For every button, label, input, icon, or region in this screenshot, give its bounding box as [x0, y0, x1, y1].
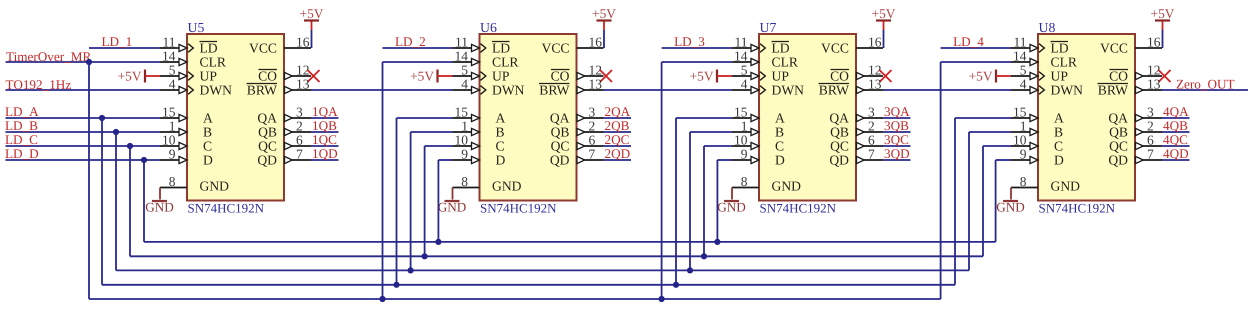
U7 pin 11 (LD) input [732, 34, 790, 55]
net label 3QB and wire [883, 118, 911, 133]
svg-text:QC: QC [551, 139, 570, 154]
net label LD_1 wire to U5 pin 11 [89, 34, 160, 49]
svg-text:QB: QB [258, 125, 277, 140]
svg-text:14: 14 [734, 48, 748, 63]
svg-text:1QD: 1QD [312, 146, 338, 161]
svg-text:C: C [1054, 139, 1063, 154]
power +5V bar symbol at U5 UP pin [118, 69, 160, 84]
svg-text:12: 12 [1147, 62, 1161, 77]
U5 pin 7 (QD) output [257, 146, 311, 167]
svg-text:+5V: +5V [410, 69, 434, 84]
wire TimerOver_MR vertical drop [88, 62, 90, 299]
svg-text:3: 3 [868, 104, 875, 119]
svg-text:4: 4 [461, 76, 468, 91]
svg-text:6: 6 [589, 132, 596, 147]
wire riser U7 B from bottom bus [687, 132, 732, 274]
svg-text:1QB: 1QB [312, 118, 337, 133]
svg-text:LD_4: LD_4 [953, 34, 984, 49]
svg-text:B: B [1054, 125, 1063, 140]
svg-text:CLR: CLR [772, 55, 799, 70]
U5 pin 2 (QB) output [258, 118, 311, 139]
U7 pin 3 (QA) output [829, 104, 883, 125]
U6 pin 14 (CLR) input [453, 48, 520, 69]
part number SN74HC192N of U5 [188, 201, 265, 216]
svg-text:SN74HC192N: SN74HC192N [760, 201, 837, 216]
svg-text:6: 6 [296, 132, 303, 147]
part number SN74HC192N of U8 [1039, 201, 1116, 216]
svg-text:6: 6 [868, 132, 875, 147]
svg-text:3QD: 3QD [884, 146, 910, 161]
IC U8 SN74HC192N body [1038, 34, 1135, 201]
svg-text:2: 2 [589, 118, 596, 133]
svg-text:A: A [496, 111, 506, 126]
svg-text:U7: U7 [760, 20, 777, 35]
U6 pin 16 (VCC) [542, 34, 604, 55]
svg-text:9: 9 [169, 146, 176, 161]
U8 pin 3 (QA) output [1108, 104, 1162, 125]
net label 2QB and wire [604, 118, 632, 133]
svg-text:5: 5 [1020, 62, 1027, 77]
svg-text:4: 4 [169, 76, 176, 91]
svg-text:D: D [203, 153, 213, 168]
U5 pin 11 (LD) input [160, 34, 218, 55]
net LD_D: label and wire to U5 pin D [5, 146, 160, 161]
svg-text:4: 4 [1020, 76, 1027, 91]
U5 pin 10 (C) input [160, 132, 212, 153]
svg-text:UP: UP [772, 69, 790, 84]
svg-text:GND: GND [145, 200, 174, 215]
U6 pin 7 (QD) output [550, 146, 604, 167]
svg-text:16: 16 [1147, 34, 1161, 49]
svg-text:TimerOver_MR: TimerOver_MR [6, 49, 91, 64]
U8 pin 16 (VCC) [1100, 34, 1162, 55]
svg-text:8: 8 [461, 174, 468, 189]
net label 3QD and wire [883, 146, 911, 161]
U8 pin 11 (LD) input [1011, 34, 1069, 55]
svg-text:QB: QB [551, 125, 570, 140]
svg-text:2: 2 [868, 118, 875, 133]
svg-text:C: C [496, 139, 505, 154]
U7 pin 10 (C) input [732, 132, 784, 153]
U6 pin 4 (DWN) input [453, 76, 525, 97]
wire LD_C bottom bus [130, 255, 983, 257]
junction LD_D tap [141, 157, 147, 163]
wire LD_A vertical drop [101, 118, 103, 285]
U6 pin 12 (CO) with no-connect X [551, 62, 612, 83]
svg-text:1QC: 1QC [312, 132, 337, 147]
svg-text:2QB: 2QB [605, 118, 630, 133]
U5 pin 6 (QC) output [258, 132, 311, 153]
U5 pin 4 (DWN) input [160, 76, 232, 97]
svg-text:CO: CO [830, 69, 849, 84]
U6 pin 3 (QA) output [550, 104, 604, 125]
net label 3QC and wire [883, 132, 911, 147]
svg-text:4QD: 4QD [1163, 146, 1189, 161]
svg-text:GND: GND [1051, 179, 1081, 194]
svg-text:U5: U5 [188, 20, 205, 35]
svg-text:B: B [775, 125, 784, 140]
svg-text:U6: U6 [480, 20, 497, 35]
svg-text:12: 12 [868, 62, 882, 77]
svg-text:7: 7 [296, 146, 303, 161]
wire LD_B bottom bus [116, 269, 969, 271]
svg-text:4QA: 4QA [1163, 104, 1189, 119]
svg-text:LD: LD [200, 41, 218, 56]
wire TimerOver_MR bottom bus [89, 298, 941, 300]
net label 1QD and wire [311, 146, 339, 161]
U7 pin 8 (GND) [732, 174, 801, 194]
U5 pin 1 (B) input [160, 118, 212, 139]
svg-text:1: 1 [169, 118, 176, 133]
ground symbol GND at U7 pin 8 [717, 188, 746, 215]
U8 pin 14 (CLR) input [1011, 48, 1078, 69]
svg-text:BRW: BRW [539, 83, 569, 98]
svg-text:QC: QC [1109, 139, 1128, 154]
svg-text:BRW: BRW [1098, 83, 1128, 98]
svg-text:13: 13 [868, 76, 882, 91]
svg-text:10: 10 [162, 132, 176, 147]
wire riser U6 C from bottom bus [422, 146, 453, 259]
svg-text:QA: QA [829, 111, 849, 126]
U7 pin 13 (BRW) output [819, 76, 884, 97]
svg-text:7: 7 [589, 146, 596, 161]
svg-text:C: C [203, 139, 212, 154]
ground symbol GND at U6 pin 8 [438, 188, 467, 215]
svg-text:GND: GND [492, 179, 522, 194]
U7 pin 14 (CLR) input [732, 48, 799, 69]
svg-text:SN74HC192N: SN74HC192N [188, 201, 265, 216]
wire riser U8 C from bottom bus [983, 146, 1011, 256]
svg-text:9: 9 [741, 146, 748, 161]
svg-text:3QC: 3QC [884, 132, 909, 147]
svg-text:14: 14 [455, 48, 469, 63]
U6 pin 6 (QC) output [551, 132, 604, 153]
U8 pin 4 (DWN) input [1011, 76, 1083, 97]
svg-text:QC: QC [258, 139, 277, 154]
svg-text:VCC: VCC [821, 41, 849, 56]
svg-text:11: 11 [735, 34, 748, 49]
svg-text:VCC: VCC [1100, 41, 1128, 56]
net LD_B: label and wire to U5 pin B [5, 118, 160, 133]
svg-text:LD_1: LD_1 [102, 34, 133, 49]
wire riser U8 D from bottom bus [996, 160, 1011, 242]
svg-text:10: 10 [455, 132, 469, 147]
svg-text:U8: U8 [1039, 20, 1056, 35]
designator U6 [480, 20, 497, 35]
svg-text:B: B [496, 125, 505, 140]
net label 2QC and wire [604, 132, 632, 147]
U7 pin 5 (UP) input [732, 62, 789, 83]
U7 pin 15 (A) input [732, 104, 785, 125]
power +5V bar symbol at U6 UP pin [410, 69, 452, 84]
U7 pin 2 (QB) output [830, 118, 883, 139]
svg-text:10: 10 [1013, 132, 1027, 147]
svg-text:12: 12 [589, 62, 603, 77]
svg-text:SN74HC192N: SN74HC192N [480, 201, 557, 216]
U6 pin 9 (D) input [453, 146, 506, 167]
net Zero_OUT from U8 BRW [1162, 77, 1248, 92]
U5 pin 3 (QA) output [257, 104, 311, 125]
svg-text:UP: UP [1051, 69, 1069, 84]
U8 pin 6 (QC) output [1109, 132, 1162, 153]
svg-text:DWN: DWN [200, 83, 233, 98]
net label 4QC and wire [1162, 132, 1190, 147]
svg-text:8: 8 [741, 174, 748, 189]
part number SN74HC192N of U6 [480, 201, 557, 216]
svg-text:DWN: DWN [1051, 83, 1084, 98]
net label 4QB and wire [1162, 118, 1190, 133]
U8 pin 12 (CO) with no-connect X [1109, 62, 1170, 83]
svg-text:9: 9 [1020, 146, 1027, 161]
U5 pin 12 (CO) with no-connect X [258, 62, 319, 83]
U6 pin 13 (BRW) output [539, 76, 604, 97]
svg-text:+5V: +5V [300, 6, 324, 21]
svg-text:13: 13 [296, 76, 310, 91]
svg-text:CLR: CLR [200, 55, 227, 70]
svg-text:13: 13 [1147, 76, 1161, 91]
power +5V bar symbol at U8 UP pin [969, 69, 1011, 84]
svg-text:D: D [775, 153, 785, 168]
svg-text:CO: CO [1109, 69, 1128, 84]
svg-text:11: 11 [163, 34, 176, 49]
wire U6 BRW to U7 DWN [604, 89, 733, 91]
svg-text:1QA: 1QA [312, 104, 338, 119]
svg-text:LD_2: LD_2 [395, 34, 426, 49]
net label 2QA and wire [604, 104, 632, 119]
svg-text:QA: QA [550, 111, 570, 126]
U6 pin 2 (QB) output [551, 118, 604, 139]
svg-text:2: 2 [296, 118, 303, 133]
svg-text:GND: GND [717, 200, 746, 215]
U7 pin 7 (QD) output [829, 146, 883, 167]
svg-text:CLR: CLR [492, 55, 519, 70]
U5 pin 9 (D) input [160, 146, 213, 167]
svg-text:15: 15 [162, 104, 176, 119]
U5 pin 13 (BRW) output [247, 76, 312, 97]
ground symbol GND at U8 pin 8 [996, 188, 1025, 215]
svg-text:LD_C: LD_C [5, 132, 38, 147]
svg-text:4QB: 4QB [1163, 118, 1188, 133]
net TimerOver_MR: label and wire to U5 CLR [6, 49, 161, 64]
wire LD_D vertical drop [143, 160, 145, 242]
svg-text:2QA: 2QA [605, 104, 631, 119]
svg-text:LD: LD [1051, 41, 1069, 56]
wire U5 BRW to U6 DWN [311, 89, 453, 91]
ground symbol GND at U5 pin 8 [145, 188, 174, 215]
U7 pin 16 (VCC) [821, 34, 883, 55]
U7 pin 4 (DWN) input [732, 76, 804, 97]
wire LD_B vertical drop [115, 132, 117, 270]
wire riser U8 CLR from bottom bus [941, 62, 1011, 299]
svg-text:12: 12 [296, 62, 310, 77]
wire U7 BRW to U8 DWN [883, 89, 1011, 91]
net LD_A: label and wire to U5 pin A [5, 104, 160, 119]
svg-text:UP: UP [200, 69, 218, 84]
U7 pin 12 (CO) with no-connect X [830, 62, 891, 83]
svg-text:A: A [203, 111, 213, 126]
wire riser U6 B from bottom bus [408, 132, 453, 274]
svg-text:QA: QA [257, 111, 277, 126]
svg-text:15: 15 [734, 104, 748, 119]
svg-text:1: 1 [461, 118, 468, 133]
svg-text:CLR: CLR [1051, 55, 1078, 70]
net label 4QD and wire [1162, 146, 1190, 161]
wire riser U6 D from bottom bus [435, 160, 452, 245]
net label LD_4 wire to U8 pin 11 [941, 34, 1011, 49]
svg-text:QA: QA [1108, 111, 1128, 126]
svg-text:5: 5 [741, 62, 748, 77]
designator U7 [760, 20, 777, 35]
svg-text:QD: QD [1108, 153, 1128, 168]
wire riser U6 CLR from bottom bus [379, 62, 452, 302]
svg-text:DWN: DWN [492, 83, 525, 98]
junction LD_A tap [99, 115, 105, 121]
net label 2QD and wire [604, 146, 632, 161]
svg-text:16: 16 [296, 34, 310, 49]
wire LD_C vertical drop [129, 146, 131, 256]
svg-text:1: 1 [1020, 118, 1027, 133]
svg-text:5: 5 [169, 62, 176, 77]
U7 pin 1 (B) input [732, 118, 784, 139]
net TO192_1Hz: label and wire to U5 DWN [6, 77, 161, 92]
U5 pin 15 (A) input [160, 104, 213, 125]
svg-text:VCC: VCC [249, 41, 277, 56]
svg-text:TO192_1Hz: TO192_1Hz [6, 77, 72, 92]
svg-text:LD_3: LD_3 [674, 34, 705, 49]
svg-text:CO: CO [551, 69, 570, 84]
svg-text:2QC: 2QC [605, 132, 630, 147]
svg-text:LD_B: LD_B [5, 118, 38, 133]
svg-text:3: 3 [589, 104, 596, 119]
IC U5 SN74HC192N body [187, 34, 284, 201]
svg-text:QD: QD [257, 153, 277, 168]
svg-text:8: 8 [1020, 174, 1027, 189]
svg-text:8: 8 [169, 174, 176, 189]
svg-text:LD_A: LD_A [5, 104, 39, 119]
U5 pin 5 (UP) input [160, 62, 217, 83]
U8 pin 5 (UP) input [1011, 62, 1068, 83]
junction LD_C tap [127, 143, 133, 149]
svg-text:15: 15 [1013, 104, 1027, 119]
svg-text:SN74HC192N: SN74HC192N [1039, 201, 1116, 216]
power +5V bar symbol above U5 VCC [300, 6, 324, 48]
U7 pin 9 (D) input [732, 146, 785, 167]
U5 pin 8 (GND) [160, 174, 229, 194]
net label 1QC and wire [311, 132, 339, 147]
svg-text:11: 11 [1014, 34, 1027, 49]
U6 pin 11 (LD) input [453, 34, 511, 55]
svg-text:16: 16 [589, 34, 603, 49]
svg-text:UP: UP [492, 69, 510, 84]
svg-text:2QD: 2QD [605, 146, 631, 161]
svg-text:14: 14 [1013, 48, 1027, 63]
junction TimerOver_MR tap [86, 59, 92, 65]
IC U6 SN74HC192N body [480, 34, 577, 201]
svg-text:A: A [775, 111, 785, 126]
svg-text:BRW: BRW [819, 83, 849, 98]
U8 pin 8 (GND) [1011, 174, 1080, 194]
svg-text:14: 14 [162, 48, 176, 63]
svg-text:QD: QD [550, 153, 570, 168]
U6 pin 1 (B) input [453, 118, 505, 139]
net label 4QA and wire [1162, 104, 1190, 119]
U8 pin 13 (BRW) output [1098, 76, 1163, 97]
svg-text:11: 11 [455, 34, 468, 49]
wire riser U7 CLR from bottom bus [659, 62, 733, 302]
svg-text:+5V: +5V [118, 69, 142, 84]
svg-text:13: 13 [589, 76, 603, 91]
wire riser U8 B from bottom bus [969, 132, 1011, 270]
U8 pin 9 (D) input [1011, 146, 1064, 167]
svg-text:+5V: +5V [592, 6, 616, 21]
designator U8 [1039, 20, 1056, 35]
svg-text:10: 10 [734, 132, 748, 147]
svg-text:7: 7 [1147, 146, 1154, 161]
svg-text:BRW: BRW [247, 83, 277, 98]
power +5V bar symbol at U7 UP pin [690, 69, 732, 84]
net label 1QA and wire [311, 104, 339, 119]
svg-text:6: 6 [1147, 132, 1154, 147]
U7 pin 6 (QC) output [830, 132, 883, 153]
svg-text:LD: LD [492, 41, 510, 56]
power +5V bar symbol above U8 VCC [1151, 6, 1175, 48]
svg-text:QB: QB [1109, 125, 1128, 140]
svg-text:D: D [496, 153, 506, 168]
wire riser U8 A from bottom bus [955, 118, 1011, 285]
U8 pin 2 (QB) output [1109, 118, 1162, 139]
svg-text:Zero_OUT: Zero_OUT [1176, 77, 1235, 92]
svg-text:QB: QB [830, 125, 849, 140]
svg-text:1: 1 [741, 118, 748, 133]
IC U7 SN74HC192N body [759, 34, 856, 201]
wire riser U6 A from bottom bus [393, 118, 452, 288]
net label LD_3 wire to U7 pin 11 [662, 34, 732, 49]
U8 pin 7 (QD) output [1108, 146, 1162, 167]
U8 pin 1 (B) input [1011, 118, 1063, 139]
svg-text:A: A [1054, 111, 1064, 126]
U8 pin 15 (A) input [1011, 104, 1064, 125]
U8 pin 10 (C) input [1011, 132, 1063, 153]
svg-text:QD: QD [829, 153, 849, 168]
svg-text:3QA: 3QA [884, 104, 910, 119]
svg-text:GND: GND [772, 179, 802, 194]
U5 pin 16 (VCC) [249, 34, 311, 55]
svg-text:+5V: +5V [690, 69, 714, 84]
junction LD_B tap [113, 129, 119, 135]
U5 pin 14 (CLR) input [160, 48, 227, 69]
svg-text:LD: LD [772, 41, 790, 56]
U6 pin 10 (C) input [453, 132, 505, 153]
svg-text:4: 4 [741, 76, 748, 91]
U6 pin 8 (GND) [453, 174, 522, 194]
net label LD_2 wire to U6 pin 11 [383, 34, 453, 49]
svg-text:B: B [203, 125, 212, 140]
svg-text:5: 5 [461, 62, 468, 77]
svg-text:4QC: 4QC [1163, 132, 1188, 147]
wire riser U7 A from bottom bus [673, 118, 732, 288]
svg-text:2: 2 [1147, 118, 1154, 133]
net label 1QB and wire [311, 118, 339, 133]
svg-text:DWN: DWN [772, 83, 805, 98]
U6 pin 15 (A) input [453, 104, 506, 125]
part number SN74HC192N of U7 [760, 201, 837, 216]
svg-text:9: 9 [461, 146, 468, 161]
svg-text:GND: GND [200, 179, 230, 194]
svg-text:+5V: +5V [1151, 6, 1175, 21]
wire LD_A bottom bus [102, 284, 955, 286]
svg-text:3: 3 [1147, 104, 1154, 119]
U6 pin 5 (UP) input [453, 62, 510, 83]
